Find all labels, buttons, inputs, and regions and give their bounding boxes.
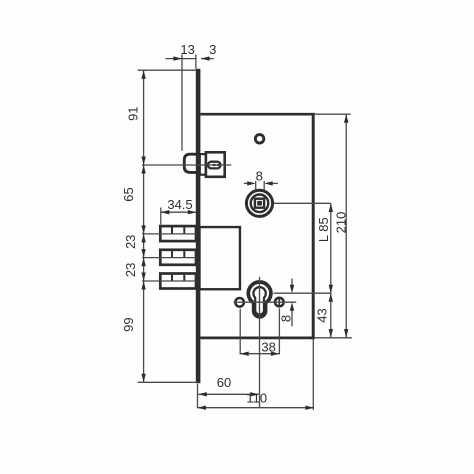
svg-text:23: 23 [123, 235, 138, 249]
tooth 3 center extension line [142, 280, 196, 282]
dim 65 arrows [141, 165, 145, 174]
hub 8 arrow shafts [244, 182, 248, 184]
dim 110 line [197, 407, 314, 409]
dimension texts [121, 42, 349, 406]
lock body bottom edge [200, 336, 314, 339]
faceplate [196, 69, 201, 383]
dim 38 arrows [240, 352, 249, 356]
dim 3 leader [201, 58, 214, 60]
lock body top edge [200, 113, 314, 116]
bolt tooth 2 [160, 250, 196, 265]
latch inner slot capsule [208, 162, 221, 169]
dim L85 and 43 line [330, 204, 332, 338]
faceplate front extension line [195, 55, 197, 69]
dim 110 arrows [197, 406, 206, 410]
dim 91 arrows [141, 70, 145, 79]
dim 60 arrows [198, 392, 207, 396]
hub square extension lines [255, 181, 257, 190]
svg-text:91: 91 [126, 106, 141, 120]
spindle hub middle circle [251, 195, 269, 213]
spindle hub center square [257, 201, 262, 206]
screw centerline [234, 301, 297, 303]
svg-text:43: 43 [315, 308, 330, 322]
cylinder center extension line [274, 292, 331, 294]
faceplate bottom extension line [138, 381, 198, 383]
svg-text:13: 13 [180, 42, 194, 57]
faceplate bottom vertical extension [197, 384, 199, 409]
spindle hub square follower [255, 199, 264, 208]
svg-text:65: 65 [121, 187, 136, 201]
svg-text:8: 8 [256, 169, 263, 184]
cylinder right screw circle [275, 298, 284, 307]
latch centerline [142, 164, 231, 166]
dim 13 line [166, 58, 196, 60]
arrowheads [141, 56, 348, 410]
euro cylinder inner profile [253, 287, 265, 314]
dim 34.5 line [161, 211, 197, 213]
dim 13 arrows [173, 56, 182, 60]
svg-text:34.5: 34.5 [167, 197, 192, 212]
latch slot inner dashes [213, 164, 216, 166]
svg-text:110: 110 [246, 391, 267, 406]
latch bolt (rounded, protruding left of faceplate) [184, 154, 199, 172]
cylinder dim 8 arrows [290, 285, 294, 294]
bolt tooth 1 [160, 226, 196, 241]
hub dim 8 arrows [247, 181, 256, 185]
dim 210 line [345, 114, 347, 337]
svg-text:8: 8 [278, 315, 293, 322]
dim 34.5 arrows [161, 210, 170, 214]
bolt tooth 3 [160, 274, 196, 289]
right screw cross vertical [278, 297, 280, 307]
tooth 1 center extension line [142, 233, 196, 235]
svg-text:38: 38 [261, 340, 275, 355]
svg-text:99: 99 [121, 317, 136, 331]
body corner vertical extension [312, 340, 314, 410]
body top right extension [315, 113, 351, 115]
left dimension line [143, 70, 145, 382]
tooth 2 center extension line [142, 257, 196, 259]
dim 99 arrows [141, 281, 145, 290]
latch connector box [200, 154, 206, 175]
spindle hub outer circle [246, 190, 272, 216]
euro cylinder outer profile [248, 282, 271, 317]
deadbolt case rectangle [200, 227, 240, 289]
dim 60 line [198, 393, 258, 395]
svg-text:3: 3 [209, 42, 216, 57]
body bottom right extension [315, 337, 352, 339]
dim 8 arrow shafts (cylinder) [291, 279, 293, 286]
screw hole circle (upper body) [255, 135, 264, 144]
thin construction and dimension lines [138, 55, 352, 410]
hub centerline extension [274, 202, 331, 204]
svg-text:23: 23 [123, 263, 138, 277]
dim 34.5 left extension [160, 208, 162, 225]
dim 38 line [240, 353, 279, 355]
dim 210 arrows [344, 114, 348, 123]
faceplate top extension line [138, 69, 196, 71]
svg-text:60: 60 [217, 375, 231, 390]
dim 43 arrows [329, 293, 333, 302]
svg-text:210: 210 [334, 212, 349, 234]
dim L85 arrows [329, 204, 333, 213]
latch housing rectangle [206, 152, 225, 177]
latch tip extension line [181, 55, 183, 151]
svg-text:L 85: L 85 [316, 217, 331, 242]
dim 23 arrows [141, 234, 145, 243]
lock body right edge [312, 113, 315, 339]
cylinder left screw circle [235, 298, 244, 307]
dim 38 extension lines [239, 309, 241, 355]
dim 23 arrows (second) [141, 258, 145, 267]
cylinder vertical centerline [259, 277, 261, 408]
